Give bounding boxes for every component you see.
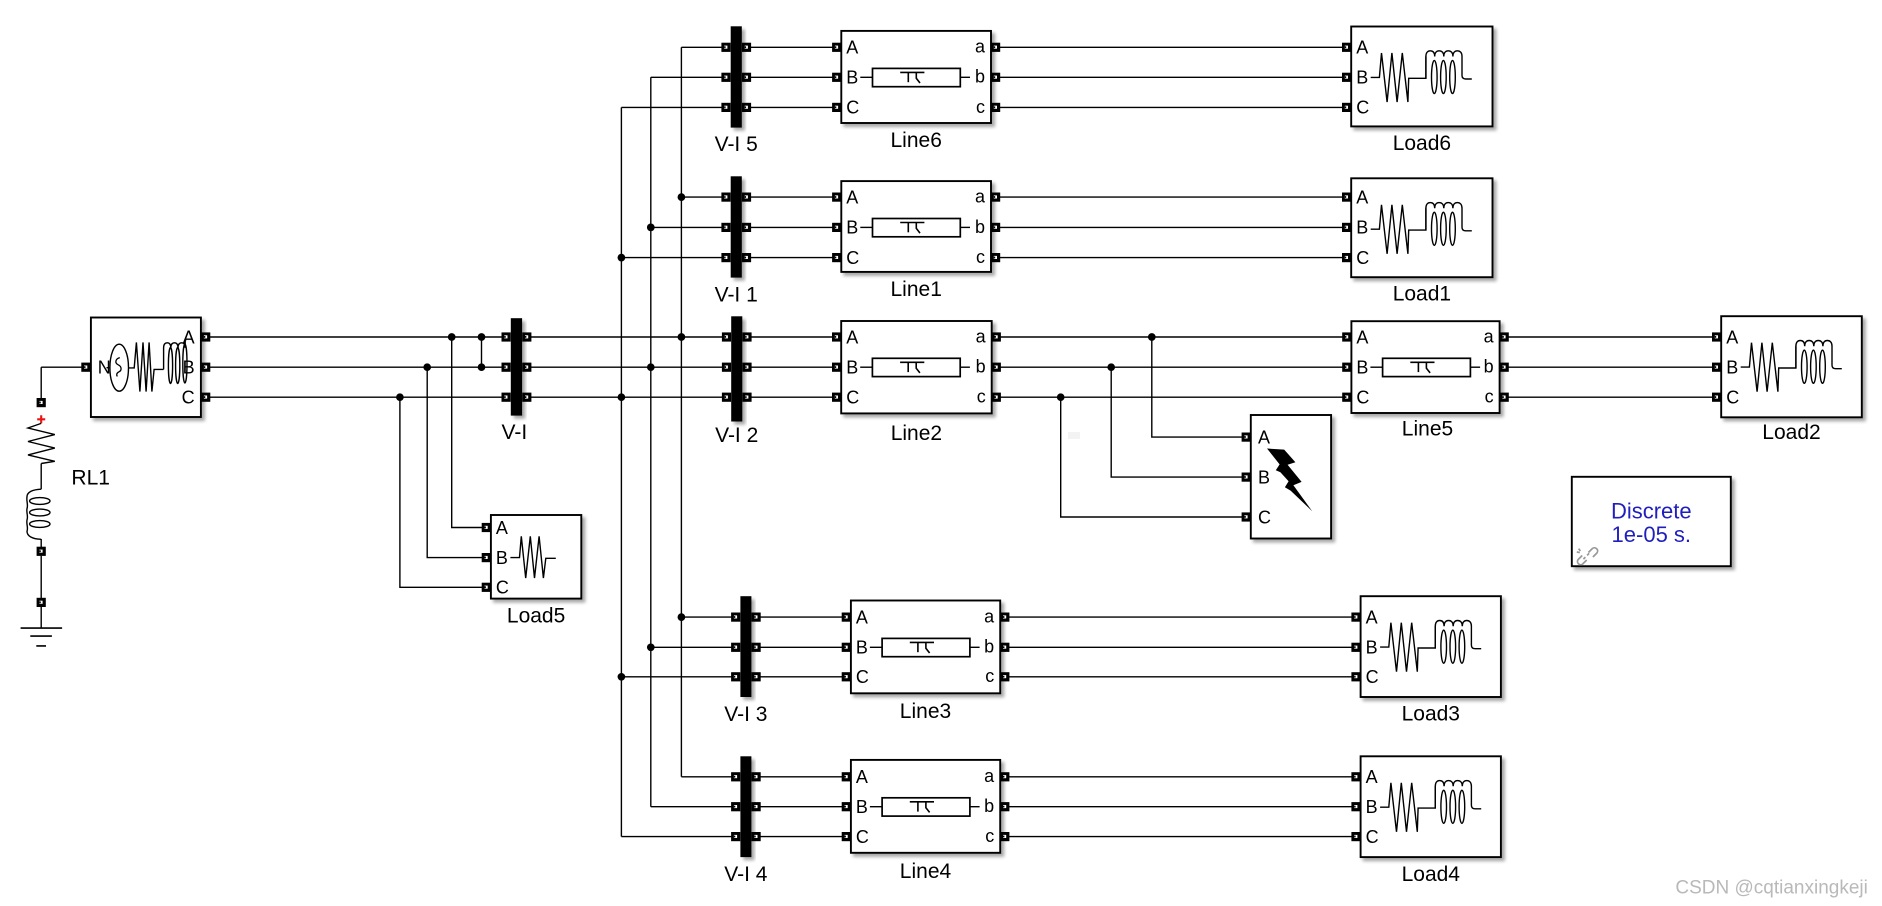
wire phase C tap to Load5 C: [400, 397, 486, 587]
svg-text:a: a: [1484, 326, 1495, 346]
svg-text:Load6: Load6: [1393, 132, 1451, 155]
wire row3 b Line3 to Load3: [1005, 646, 1356, 648]
Line2 right port b: [992, 363, 1001, 372]
Line5 right port c: [1500, 393, 1509, 402]
svg-text:B: B: [1258, 467, 1270, 487]
V-I 3 left port C: [731, 672, 740, 681]
RL1 polarity plus mark: [37, 415, 45, 423]
V-I left port B: [502, 363, 511, 372]
wire a Line2 to Line5: [996, 336, 1347, 338]
svg-text:Line1: Line1: [891, 278, 942, 301]
wire C feeder to V-I 3: [621, 676, 735, 678]
svg-text:a: a: [976, 326, 987, 346]
Load5 port B: [482, 553, 491, 562]
wire fault tap C: [1061, 397, 1247, 517]
svg-text:Line4: Line4: [900, 860, 952, 883]
load block Load2: [1721, 316, 1862, 417]
V-I 1 left port B: [721, 223, 730, 232]
wire C feeder to V-I 4: [621, 836, 735, 838]
wire B V-I2 to Line2: [747, 366, 837, 368]
junction trunk A row3: [678, 613, 686, 621]
V-I 1 left port A: [721, 193, 730, 202]
fault lightning bolt: [1267, 449, 1312, 512]
svg-text:c: c: [1485, 387, 1494, 407]
Line6 right port b: [991, 73, 1000, 82]
wire c Line2 to Line5: [996, 396, 1347, 398]
wire bus C V-I to V-I2: [527, 396, 727, 398]
svg-text:A: A: [846, 187, 858, 207]
wire B feeder to V-I 1: [651, 226, 726, 228]
junction C tap Load5: [396, 393, 404, 401]
RL1 top PMC port: [37, 398, 46, 407]
junction B tap Load5: [423, 363, 431, 371]
V-I measurement block V-I 5: [731, 26, 742, 127]
V-I 4 right port B: [752, 802, 761, 811]
wire A feeder to V-I 5: [681, 46, 726, 48]
junction trunk A row1: [678, 193, 686, 201]
load block Load3: [1361, 596, 1501, 697]
V-I 5 right port A: [742, 43, 751, 52]
broken library link icon: [1577, 548, 1598, 565]
ground PMC port: [37, 598, 46, 607]
svg-text:B: B: [846, 358, 858, 378]
svg-text:Load2: Load2: [1762, 421, 1820, 444]
Load6 port B: [1342, 73, 1351, 82]
V-I 5 left port A: [721, 43, 730, 52]
junction trunk C row3: [618, 673, 626, 681]
svg-text:B: B: [846, 68, 858, 88]
wire row1 a Line1 to Load1: [996, 196, 1347, 198]
Line5 left port C: [1342, 393, 1351, 402]
svg-text:b: b: [1484, 357, 1494, 377]
RL1 bottom PMC port: [37, 547, 46, 556]
V-I 4 right port C: [752, 832, 761, 841]
line block Line1 (pi-section): [841, 181, 991, 272]
Line4 right port c: [1000, 832, 1009, 841]
wire row4 C V-I4 to Line4: [755, 836, 846, 838]
Line4 right port b: [1000, 802, 1009, 811]
wire A feeder to V-I 3: [681, 616, 735, 618]
fault port A: [1242, 433, 1251, 442]
svg-text:B: B: [1366, 797, 1378, 817]
wire row3 A V-I3 to Line3: [755, 616, 846, 618]
svg-text:a: a: [975, 37, 986, 57]
fault port C: [1242, 512, 1251, 521]
wire row1 B V-I1 to Line1: [745, 226, 837, 228]
line block Line2 (pi-section): [841, 321, 992, 413]
V-I measurement block V-I 4: [740, 756, 751, 857]
Line4 right port a: [1000, 772, 1009, 781]
wire C V-I2 to Line2: [747, 396, 837, 398]
Load1 port B: [1342, 223, 1351, 232]
Load3 port B: [1351, 643, 1360, 652]
wire row3 c Line3 to Load3: [1005, 676, 1356, 678]
Load2 series RL icon: [1741, 343, 1796, 392]
wire row3 C V-I3 to Line3: [755, 676, 846, 678]
svg-text:C: C: [496, 578, 509, 598]
wire source N lead: [41, 366, 86, 368]
Line3 left port B: [842, 643, 851, 652]
line block Line4 (pi-section): [851, 760, 1000, 853]
svg-text:Line5: Line5: [1402, 418, 1453, 441]
wire B feeder to V-I 5: [651, 76, 726, 78]
Line1 left port A: [832, 193, 841, 202]
svg-text:V-I: V-I: [502, 421, 528, 444]
svg-text:c: c: [977, 387, 986, 407]
V-I left port C: [502, 393, 511, 402]
wire row4 A V-I4 to Line4: [755, 776, 846, 778]
svg-text:B: B: [183, 358, 195, 378]
svg-text:A: A: [856, 607, 868, 627]
svg-text:B: B: [1356, 218, 1368, 238]
svg-text:b: b: [975, 67, 985, 87]
wire row1 c Line1 to Load1: [996, 257, 1347, 259]
V-I measurement block V-I 1: [731, 176, 742, 277]
V-I right port A: [522, 332, 531, 341]
V-I measurement block V-I 2: [731, 316, 742, 421]
wire b Line2 to Line5: [996, 366, 1347, 368]
svg-text:A: A: [846, 38, 858, 58]
Line1 right port c: [991, 253, 1000, 262]
Load3 port A: [1351, 613, 1360, 622]
Line5 left port A: [1342, 332, 1351, 341]
svg-text:Line2: Line2: [891, 422, 942, 445]
ground symbol: [21, 628, 63, 646]
junction A-B stub bottom: [478, 363, 486, 371]
Line1 left port C: [832, 253, 841, 262]
load block Load4: [1361, 756, 1501, 857]
wire fault tap A: [1152, 337, 1246, 437]
Line4 pi symbol: [882, 798, 970, 816]
wire row6 b Line6 to Load6: [996, 76, 1347, 78]
Load4 series RL icon: [1380, 783, 1435, 832]
source port B: [201, 363, 210, 372]
V-I 3 right port B: [752, 643, 761, 652]
wire bus A V-I to V-I2: [527, 336, 727, 338]
svg-text:a: a: [984, 766, 995, 786]
wire RL1 lower lead: [40, 539, 42, 547]
svg-text:B: B: [856, 638, 868, 658]
svg-text:C: C: [846, 98, 859, 118]
wire row6 A V-I5 to Line6: [745, 46, 837, 48]
V-I 4 left port B: [731, 802, 740, 811]
wire row4 B V-I4 to Line4: [755, 806, 846, 808]
wire bus C source to V-I: [206, 396, 507, 398]
svg-text:Discrete: Discrete: [1611, 499, 1692, 524]
wire A feeder to V-I 1: [681, 196, 726, 198]
svg-text:A: A: [1356, 187, 1368, 207]
Line6 left port B: [832, 73, 841, 82]
wire row4 a Line4 to Load4: [1005, 776, 1356, 778]
load block Load6: [1351, 27, 1492, 127]
resistor RL1 (zigzag): [28, 423, 55, 463]
V-I 1 right port A: [742, 193, 751, 202]
svg-text:V-I 2: V-I 2: [715, 424, 758, 447]
junction trunk B row3: [647, 643, 655, 651]
junction fault B tap: [1107, 363, 1115, 371]
Line3 left port A: [842, 613, 851, 622]
svg-text:c: c: [976, 97, 985, 117]
V-I 5 right port B: [742, 73, 751, 82]
junction A-B stub top: [478, 333, 486, 341]
svg-text:B: B: [1726, 358, 1738, 378]
wire row1 A V-I1 to Line1: [745, 196, 837, 198]
Load4 port A: [1351, 772, 1360, 781]
wire row1 b Line1 to Load1: [996, 226, 1347, 228]
Line5 pi symbol: [1383, 358, 1471, 376]
V-I measurement block V-I 3: [740, 596, 751, 697]
wire phase A vertical trunk: [680, 47, 682, 777]
Load1 port A: [1342, 193, 1351, 202]
junction A tap Load5: [448, 333, 456, 341]
svg-text:C: C: [1258, 507, 1271, 527]
svg-text:A: A: [856, 767, 868, 787]
wire C feeder to V-I 5: [621, 106, 726, 108]
wire row4 c Line4 to Load4: [1005, 836, 1356, 838]
svg-text:C: C: [1356, 248, 1369, 268]
V-I right port B: [522, 363, 531, 372]
load block Load1: [1351, 178, 1492, 277]
load block Load5: [491, 515, 581, 599]
Line4 left port B: [842, 802, 851, 811]
wire a Line5 to Load2: [1504, 336, 1716, 338]
V-I 2 left port C: [722, 393, 731, 402]
V-I measurement block V-I: [511, 318, 522, 415]
svg-text:Load4: Load4: [1402, 863, 1461, 886]
svg-text:B: B: [1356, 68, 1368, 88]
wire row3 B V-I3 to Line3: [755, 646, 846, 648]
svg-text:c: c: [976, 247, 985, 267]
svg-text:C: C: [1356, 98, 1369, 118]
V-I 2 right port A: [742, 332, 751, 341]
wire c Line5 to Load2: [1504, 396, 1716, 398]
V-I right port C: [522, 393, 531, 402]
V-I 3 right port C: [752, 672, 761, 681]
Line2 right port a: [992, 332, 1001, 341]
V-I 2 right port B: [742, 363, 751, 372]
V-I 1 left port C: [721, 253, 730, 262]
svg-text:A: A: [1356, 327, 1368, 347]
svg-text:Load5: Load5: [507, 604, 565, 627]
wire bus A source to V-I: [206, 336, 507, 338]
faint watermark remnant: [1068, 432, 1080, 439]
Load5 series RL icon: [510, 536, 555, 578]
Line3 right port c: [1000, 672, 1009, 681]
junction trunk C row2: [618, 393, 626, 401]
svg-text:A: A: [1366, 767, 1378, 787]
V-I 1 right port C: [742, 253, 751, 262]
Line4 left port C: [842, 832, 851, 841]
Line5 right port a: [1500, 332, 1509, 341]
svg-text:B: B: [1366, 638, 1378, 658]
wire bus B source to V-I: [206, 366, 507, 368]
svg-text:C: C: [856, 667, 869, 687]
svg-text:B: B: [856, 797, 868, 817]
svg-text:Line3: Line3: [900, 700, 951, 723]
source internal inductor: [164, 340, 186, 369]
Line1 right port b: [991, 223, 1000, 232]
svg-text:V-I 3: V-I 3: [724, 703, 767, 726]
wire fault tap B: [1111, 367, 1246, 477]
svg-text:C: C: [846, 248, 859, 268]
Load3 port C: [1351, 672, 1360, 681]
wire row1 C V-I1 to Line1: [745, 257, 837, 259]
svg-text:C: C: [1726, 388, 1739, 408]
wire b Line5 to Load2: [1504, 366, 1716, 368]
V-I 3 right port A: [752, 613, 761, 622]
Line2 left port B: [832, 363, 841, 372]
V-I 2 left port B: [722, 363, 731, 372]
svg-text:CSDN @cqtianxingkeji: CSDN @cqtianxingkeji: [1675, 877, 1867, 898]
Load3 series RL icon: [1380, 623, 1435, 672]
wire bus B V-I to V-I2: [527, 366, 727, 368]
svg-text:A: A: [1356, 38, 1368, 58]
Line2 left port A: [832, 332, 841, 341]
powergui block (Discrete): [1572, 477, 1731, 566]
V-I 5 left port C: [721, 103, 730, 112]
wire C feeder to V-I 1: [621, 257, 726, 259]
svg-text:C: C: [1366, 667, 1379, 687]
junction fault C tap: [1057, 393, 1065, 401]
wire row6 B V-I5 to Line6: [745, 76, 837, 78]
Line5 left port B: [1342, 363, 1351, 372]
V-I 2 left port A: [722, 332, 731, 341]
junction trunk B row1: [647, 224, 655, 232]
svg-text:A: A: [846, 327, 858, 347]
Line4 left port A: [842, 772, 851, 781]
wire row4 b Line4 to Load4: [1005, 806, 1356, 808]
Line3 right port a: [1000, 613, 1009, 622]
inductor RL1 (coil): [27, 489, 41, 539]
wire row6 c Line6 to Load6: [996, 106, 1347, 108]
fault port B: [1242, 473, 1251, 482]
Line2 pi symbol: [872, 358, 960, 376]
svg-text:a: a: [975, 187, 986, 207]
svg-text:A: A: [1258, 427, 1270, 447]
Line1 left port B: [832, 223, 841, 232]
svg-text:a: a: [984, 607, 995, 627]
V-I 2 right port C: [742, 393, 751, 402]
Load1 series RL icon: [1371, 205, 1426, 254]
svg-text:C: C: [856, 827, 869, 847]
line block Line3 (pi-section): [851, 601, 1000, 694]
Line1 pi symbol: [873, 219, 961, 237]
Line6 right port a: [991, 43, 1000, 52]
Load6 port C: [1342, 103, 1351, 112]
svg-text:RL1: RL1: [71, 467, 110, 490]
svg-text:C: C: [1366, 827, 1379, 847]
svg-text:A: A: [1366, 607, 1378, 627]
svg-text:c: c: [985, 826, 994, 846]
Load2 port A: [1712, 332, 1721, 341]
junction fault A tap: [1148, 333, 1156, 341]
Load1 port C: [1342, 253, 1351, 262]
V-I 4 right port A: [752, 772, 761, 781]
svg-text:c: c: [985, 666, 994, 686]
svg-text:B: B: [496, 548, 508, 568]
Line6 left port C: [832, 103, 841, 112]
junction trunk B row2: [647, 363, 655, 371]
Line2 left port C: [832, 393, 841, 402]
wire RL1 mid lead: [40, 464, 42, 490]
svg-text:V-I 5: V-I 5: [715, 133, 758, 156]
Load5 port C: [482, 583, 491, 592]
Line3 left port C: [842, 672, 851, 681]
svg-text:C: C: [846, 388, 859, 408]
source port C: [201, 393, 210, 402]
svg-text:b: b: [975, 217, 985, 237]
svg-text:A: A: [496, 518, 508, 538]
wire A feeder to V-I 4: [681, 776, 735, 778]
svg-text:C: C: [182, 388, 195, 408]
svg-text:Load3: Load3: [1402, 703, 1460, 726]
wire phase B vertical trunk: [650, 77, 652, 806]
svg-text:Line6: Line6: [891, 129, 942, 152]
V-I 3 left port A: [731, 613, 740, 622]
wire row6 a Line6 to Load6: [996, 46, 1347, 48]
svg-text:b: b: [984, 637, 994, 657]
source internal resistor: [107, 342, 164, 391]
V-I left port A: [502, 332, 511, 341]
wire row6 C V-I5 to Line6: [745, 106, 837, 108]
Line1 right port a: [991, 193, 1000, 202]
svg-text:B: B: [846, 218, 858, 238]
three-phase source block: [91, 318, 201, 418]
Load2 port B: [1712, 363, 1721, 372]
Load6 port A: [1342, 43, 1351, 52]
Line6 right port c: [991, 103, 1000, 112]
source port A: [201, 332, 210, 341]
wire ground lead: [40, 607, 42, 628]
V-I 5 left port B: [721, 73, 730, 82]
source port N: [81, 363, 90, 372]
svg-text:V-I 1: V-I 1: [715, 283, 758, 306]
wire phase A tap to Load5 A: [452, 337, 487, 528]
Line6 left port A: [832, 43, 841, 52]
wire row3 a Line3 to Load3: [1005, 616, 1356, 618]
Load2 port C: [1712, 393, 1721, 402]
V-I 5 right port C: [742, 103, 751, 112]
wire phase B tap to Load5 B: [427, 367, 486, 557]
Line3 right port b: [1000, 643, 1009, 652]
three-phase fault block: [1251, 415, 1331, 539]
svg-text:b: b: [984, 796, 994, 816]
svg-text:Load1: Load1: [1393, 283, 1451, 306]
Line2 right port c: [992, 393, 1001, 402]
wire B feeder to V-I 4: [651, 806, 736, 808]
svg-text:A: A: [1726, 327, 1738, 347]
line block Line6 (pi-section): [841, 31, 991, 123]
junction trunk C row1: [618, 254, 626, 262]
V-I 4 left port A: [731, 772, 740, 781]
wire RL1 top lead: [40, 367, 42, 402]
Line3 pi symbol: [882, 638, 970, 656]
wire A V-I2 to Line2: [747, 336, 837, 338]
Line5 right port b: [1500, 363, 1509, 372]
Load4 port C: [1351, 832, 1360, 841]
source sine generator circle: [110, 344, 129, 391]
svg-text:B: B: [1356, 358, 1368, 378]
V-I 3 left port B: [731, 643, 740, 652]
wire phase C vertical trunk: [620, 107, 622, 836]
svg-text:C: C: [1356, 388, 1369, 408]
Load4 port B: [1351, 802, 1360, 811]
wire B feeder to V-I 3: [651, 646, 736, 648]
V-I 4 left port C: [731, 832, 740, 841]
Load5 port A: [482, 523, 491, 532]
V-I 1 right port B: [742, 223, 751, 232]
svg-text:1e-05 s.: 1e-05 s.: [1612, 522, 1692, 547]
